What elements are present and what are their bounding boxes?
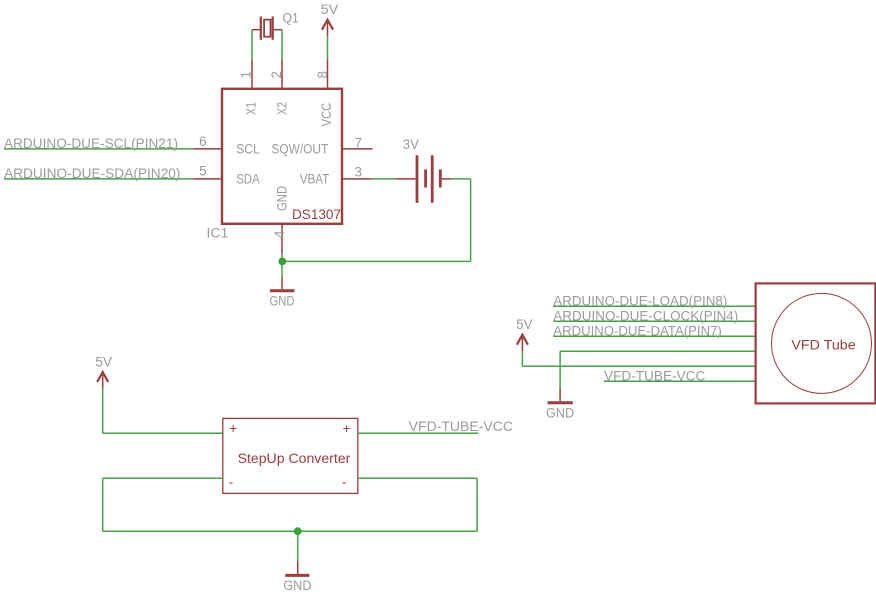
wire 5V to pin 8 [327, 36, 329, 59]
ground GND3 [283, 561, 311, 593]
svg-text:VFD Tube: VFD Tube [791, 337, 855, 352]
wire net CLOCK [553, 320, 755, 322]
wire ground bus horizontal [282, 260, 471, 262]
ground GND1 [270, 277, 295, 309]
svg-text:GND: GND [283, 578, 311, 593]
svg-text:2: 2 [269, 71, 284, 79]
svg-text:SDA: SDA [236, 171, 260, 186]
wire net VFD-TUBE-VCC right [604, 380, 755, 382]
svg-text:ARDUINO-DUE-DATA(PIN7): ARDUINO-DUE-DATA(PIN7) [553, 324, 722, 339]
pin 1 X1 [238, 60, 258, 116]
pin 5 SDA [193, 163, 260, 186]
wire net DATA [553, 335, 755, 337]
svg-text:SCL: SCL [236, 141, 260, 156]
StepUp Converter module [223, 418, 358, 493]
svg-text:4: 4 [272, 230, 287, 238]
pin 2 X2 [269, 60, 290, 116]
wire crystal pin2 drop [281, 30, 283, 60]
pin 4 GND [272, 186, 290, 254]
svg-text:VFD-TUBE-VCC: VFD-TUBE-VCC [604, 369, 706, 384]
svg-text:5V: 5V [321, 2, 339, 17]
svg-text:VBAT: VBAT [300, 171, 330, 186]
svg-text:SQW/OUT: SQW/OUT [272, 141, 329, 156]
wire StepUp plus right [358, 432, 479, 434]
svg-text:7: 7 [355, 135, 363, 150]
wire net LOAD [553, 305, 755, 307]
wire VFD gnd drop [559, 351, 561, 388]
svg-text:VCC: VCC [319, 103, 334, 127]
svg-text:-: - [229, 475, 234, 490]
supply 5V arrow bottom left [95, 355, 112, 389]
svg-text:1: 1 [238, 71, 253, 79]
svg-text:6: 6 [199, 134, 207, 149]
svg-text:-: - [342, 475, 347, 490]
wire battery right [451, 178, 471, 180]
svg-text:8: 8 [315, 71, 330, 79]
junction node bottom bus [294, 527, 302, 535]
svg-text:X1: X1 [244, 102, 259, 115]
wire VFD gnd horizontal [560, 350, 755, 352]
wire bottom bus [103, 530, 477, 532]
wire to StepUp plus left [103, 432, 223, 434]
wire StepUp minus right [358, 477, 477, 479]
wire net SDA from Arduino [4, 178, 193, 180]
svg-text:ARDUINO-DUE-CLOCK(PIN4): ARDUINO-DUE-CLOCK(PIN4) [553, 309, 738, 324]
wire battery down [470, 179, 472, 262]
svg-text:5V: 5V [516, 317, 532, 332]
wire pin4 down [281, 254, 283, 277]
pin 7 SQW/OUT [272, 135, 373, 156]
VFD Tube module [756, 283, 876, 403]
svg-text:GND: GND [270, 294, 295, 309]
svg-text:StepUp Converter: StepUp Converter [238, 451, 351, 466]
svg-text:5: 5 [199, 163, 207, 178]
svg-text:VFD-TUBE-VCC: VFD-TUBE-VCC [409, 419, 514, 434]
wire junction to GND3 [297, 531, 299, 561]
svg-text:+: + [229, 421, 237, 436]
wire pin3 to battery [372, 178, 395, 180]
pin 8 VCC [315, 60, 334, 127]
svg-text:ARDUINO-DUE-LOAD(PIN8): ARDUINO-DUE-LOAD(PIN8) [553, 294, 727, 309]
svg-text:5V: 5V [95, 355, 112, 370]
svg-text:+: + [343, 421, 351, 436]
wire minus right drop [476, 478, 478, 531]
supply 5V arrow top [321, 2, 339, 36]
supply 5V arrow mid [516, 317, 532, 352]
crystal Q1 [252, 11, 299, 40]
svg-text:ARDUINO-DUE-SDA(PIN20): ARDUINO-DUE-SDA(PIN20) [4, 166, 181, 181]
svg-text:3V: 3V [403, 137, 419, 152]
svg-text:GND: GND [546, 406, 575, 421]
svg-text:ARDUINO-DUE-SCL(PIN21): ARDUINO-DUE-SCL(PIN21) [4, 136, 178, 151]
battery 3V [395, 137, 451, 203]
svg-text:DS1307: DS1307 [292, 207, 341, 222]
ground GND2 [546, 388, 575, 421]
svg-text:Q1: Q1 [283, 11, 299, 26]
wire net SCL from Arduino [4, 148, 193, 150]
wire minus left drop [102, 478, 104, 531]
IC IC1 DS1307 body [222, 89, 342, 224]
wire 5V mid drop [521, 351, 523, 366]
wire crystal pin1 drop [251, 30, 253, 60]
svg-text:3: 3 [355, 165, 363, 180]
pin 3 VBAT [300, 165, 373, 187]
wire StepUp minus left [103, 477, 223, 479]
wire 5V mid horizontal [522, 365, 755, 367]
junction node at pin4/gnd [278, 258, 286, 266]
svg-text:X2: X2 [275, 102, 290, 115]
svg-text:GND: GND [275, 186, 290, 211]
wire 5V bottom drop [102, 389, 104, 434]
pin 6 SCL [193, 134, 260, 156]
svg-text:IC1: IC1 [207, 225, 229, 240]
